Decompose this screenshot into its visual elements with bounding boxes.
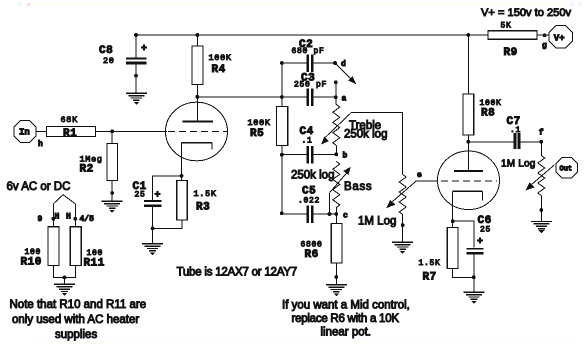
svg-text:R8: R8 xyxy=(481,108,495,120)
node H label right xyxy=(66,213,71,222)
ground heater xyxy=(54,284,75,296)
node junction R8/C7/plate xyxy=(466,140,470,144)
wire volume pot bottom lead xyxy=(402,215,404,242)
node junction treble top xyxy=(334,80,338,84)
node junction top rail at R8/R9 xyxy=(466,33,470,37)
wire C2 left lead xyxy=(282,62,307,64)
svg-text:R1: R1 xyxy=(63,128,77,140)
wire heater left lead xyxy=(52,204,54,227)
text tube type note xyxy=(177,267,297,279)
wire C1 bottom lead xyxy=(152,207,154,243)
tube triode U1a xyxy=(166,97,229,161)
svg-text:.1: .1 xyxy=(510,126,521,135)
svg-text:supplies: supplies xyxy=(55,329,97,341)
node junction C1-ground xyxy=(151,227,155,231)
svg-text:5K: 5K xyxy=(501,22,512,31)
svg-text:linear pot.: linear pot. xyxy=(321,327,372,339)
svg-text:100K: 100K xyxy=(209,53,232,63)
capacitor C8 xyxy=(99,44,147,66)
svg-text:H: H xyxy=(66,213,71,222)
svg-text:d: d xyxy=(341,60,346,69)
node a xyxy=(334,95,347,104)
wire heater right lead xyxy=(74,204,76,227)
node d xyxy=(333,60,346,69)
svg-text:25: 25 xyxy=(480,226,491,235)
wire C3 left lead xyxy=(282,96,307,98)
node b xyxy=(334,152,347,161)
node f xyxy=(539,129,544,144)
wire top supply rail xyxy=(136,34,488,36)
svg-text:1.5K: 1.5K xyxy=(194,189,217,199)
svg-text:1M Log: 1M Log xyxy=(501,159,536,170)
node junction cathode/R7/C6 xyxy=(451,219,455,223)
svg-text:g: g xyxy=(542,42,547,51)
capacitor C5 xyxy=(298,186,320,224)
wire R4 bottom to plate of U1a xyxy=(196,85,198,122)
svg-text:1.5K: 1.5K xyxy=(419,259,441,268)
ground below C1 xyxy=(142,244,163,256)
svg-text:R4: R4 xyxy=(212,64,226,76)
ground below R6 xyxy=(326,285,347,297)
wire node c to R6 xyxy=(335,214,337,224)
terminal V+ xyxy=(549,26,572,49)
svg-text:25: 25 xyxy=(135,191,146,200)
wire bass bottom to node c xyxy=(335,208,337,215)
svg-text:R7: R7 xyxy=(423,272,437,284)
capacitor C3 xyxy=(294,73,327,106)
wire C5 left lead xyxy=(282,212,307,215)
svg-text:.1: .1 xyxy=(302,137,313,146)
node pins 4/5 label xyxy=(80,215,95,224)
node junction volume-ground xyxy=(401,223,405,227)
svg-text:f: f xyxy=(539,129,544,138)
wire plate node to C7 xyxy=(468,141,513,143)
resistor R2 xyxy=(80,143,118,180)
wire R2 top lead xyxy=(111,131,113,143)
svg-text:6v AC or DC: 6v AC or DC xyxy=(7,181,71,193)
wire cathode U1a down to R3/C1 xyxy=(181,143,183,181)
svg-text:+: + xyxy=(141,44,147,55)
svg-text:100K: 100K xyxy=(248,118,271,128)
node junction R1/R2/grid xyxy=(110,130,114,134)
wire C4 right lead to node b xyxy=(314,154,337,156)
text 6v AC or DC xyxy=(7,181,71,193)
wire C8 bottom lead xyxy=(135,64,137,92)
wire cathode junction to C1 xyxy=(153,176,182,200)
wire treble top to node a xyxy=(335,82,337,104)
resistor R8 xyxy=(463,94,502,135)
wire R7 bottom to C6 bottom junction xyxy=(453,269,474,278)
svg-text:Tube is 12AX7 or 12AY7: Tube is 12AX7 or 12AY7 xyxy=(177,267,297,279)
text mid control note line1 xyxy=(282,300,410,312)
node junction rail/C2 xyxy=(280,61,284,65)
svg-text:If you want a Mid control,: If you want a Mid control, xyxy=(282,300,410,312)
svg-text:V+: V+ xyxy=(554,33,565,43)
terminal In xyxy=(14,121,36,143)
svg-text:250k log: 250k log xyxy=(291,170,334,182)
wire C2 right lead to node d xyxy=(314,62,335,64)
wire R6 bottom lead xyxy=(335,263,337,284)
wire to heater ground xyxy=(64,277,66,283)
node c xyxy=(334,212,348,221)
svg-text:R9: R9 xyxy=(504,47,518,59)
resistor R4 xyxy=(192,46,232,85)
wire treble bottom to node b xyxy=(335,146,337,155)
node junction top rail at C8 xyxy=(134,33,138,37)
svg-text:1M Log: 1M Log xyxy=(358,216,396,228)
text heater note line2 xyxy=(12,314,139,326)
wire C5 right lead to node c xyxy=(314,213,337,215)
svg-text:Bass: Bass xyxy=(344,181,372,193)
svg-text:Note that R10 and R11 are: Note that R10 and R11 are xyxy=(10,299,147,311)
wire C4 left lead xyxy=(282,154,307,156)
wire cathode junction to C6 top xyxy=(453,221,474,248)
capacitor C1 xyxy=(133,181,162,207)
node junction rail/C4 xyxy=(280,153,284,157)
node junction heater left H xyxy=(52,217,56,221)
wire node f down to out pot xyxy=(540,142,542,156)
resistor R9 xyxy=(488,22,537,60)
svg-text:+: + xyxy=(155,191,161,202)
wire R8 top lead from rail xyxy=(467,35,469,94)
wire In to R1 xyxy=(36,130,47,132)
svg-text:68K: 68K xyxy=(61,115,79,125)
capacitor C7 xyxy=(507,116,522,149)
svg-text:9: 9 xyxy=(38,215,43,224)
svg-text:4/5: 4/5 xyxy=(80,215,95,224)
node junction heater right H xyxy=(73,217,77,221)
node junction plate node xyxy=(196,95,200,99)
wire bass wiper diagonal xyxy=(330,167,351,193)
resistor R5 xyxy=(248,107,288,146)
svg-text:V+ = 150v to 250v: V+ = 150v to 250v xyxy=(481,7,572,19)
node h label xyxy=(38,140,43,149)
svg-text:e: e xyxy=(417,171,422,180)
svg-text:250k log: 250k log xyxy=(344,129,387,141)
svg-text:c: c xyxy=(343,212,348,221)
resistor R1 xyxy=(47,115,96,140)
text mid control note line2 xyxy=(292,313,400,325)
node junction output pot ground xyxy=(539,208,543,212)
tube triode U1b xyxy=(438,151,500,210)
terminal Out xyxy=(556,157,577,178)
potentiometer Bass 250k xyxy=(291,162,372,208)
ground below output pot xyxy=(531,222,552,234)
wire R4 top lead xyxy=(196,35,198,46)
node e label xyxy=(417,171,422,180)
svg-text:R2: R2 xyxy=(80,164,94,176)
capacitor C2 xyxy=(292,39,325,72)
node junction C8-ground xyxy=(134,74,138,78)
ground below C8 xyxy=(126,93,147,105)
svg-text:Out: Out xyxy=(560,166,573,174)
wire R1 to grid of U1a xyxy=(96,130,168,132)
potentiometer volume 1M Log xyxy=(358,175,406,228)
wire volume wiper diagonal to grid U1b xyxy=(386,181,437,208)
resistor R10 xyxy=(21,227,60,269)
node junction cathode/C1/R3 xyxy=(180,174,184,178)
ground below R7/C6 xyxy=(463,292,484,304)
svg-text:replace R6 with a 10K: replace R6 with a 10K xyxy=(292,313,400,325)
node junction R6-ground xyxy=(334,275,338,279)
wire C8 top lead xyxy=(135,35,137,58)
svg-text:.022: .022 xyxy=(298,197,320,206)
node junction g xyxy=(542,33,547,50)
svg-text:b: b xyxy=(343,152,348,161)
wire treble wiper to volume pot top xyxy=(352,112,403,174)
wire C7 right lead to node f xyxy=(520,141,541,143)
wire output pot wiper to Out terminal xyxy=(526,165,555,191)
wire R9 right to V+ terminal xyxy=(537,34,550,36)
wire tone stack left rail xyxy=(281,63,283,107)
node junction C6/R7 ground xyxy=(472,275,476,279)
node H label left xyxy=(55,213,60,222)
svg-text:a: a xyxy=(342,95,347,104)
wire cathode U1b down xyxy=(452,191,454,227)
potentiometer Treble 250k xyxy=(333,105,388,146)
text mid control note line3 xyxy=(321,327,372,339)
resistor R11 xyxy=(70,227,105,270)
wire bass wiper down to C5 row xyxy=(329,193,331,214)
wire R3 bottom to C1 junction xyxy=(153,220,182,229)
svg-text:R10: R10 xyxy=(21,257,42,269)
wire R2 bottom lead xyxy=(111,180,113,200)
node junction R2-ground xyxy=(110,191,114,195)
text heater note line1 xyxy=(10,299,147,311)
svg-text:only used with AC heater: only used with AC heater xyxy=(12,314,139,326)
svg-text:H: H xyxy=(55,213,60,222)
node junction top rail at R4 xyxy=(196,33,200,37)
svg-text:R11: R11 xyxy=(84,258,105,270)
resistor R3 xyxy=(177,181,217,220)
wire rail R5 bottom to C5 row xyxy=(281,146,283,215)
svg-text:h: h xyxy=(38,140,43,149)
text V+ note xyxy=(481,7,572,19)
wire R8 bottom to plate node U1b xyxy=(467,135,469,171)
capacitor C6 xyxy=(466,215,491,255)
node junction rail/C3/plate wire xyxy=(280,95,284,99)
ground below volume pot xyxy=(392,242,413,254)
svg-text:680 pF: 680 pF xyxy=(292,47,325,56)
wire output pot bottom lead xyxy=(540,196,542,221)
svg-text:R3: R3 xyxy=(196,202,210,214)
svg-text:250 pF: 250 pF xyxy=(294,81,327,90)
wire R10/R11 bottoms joined xyxy=(53,265,75,277)
text heater note line3 xyxy=(55,329,97,341)
svg-text:R5: R5 xyxy=(250,128,264,140)
node junction bass wiper/C5 wire xyxy=(328,212,332,216)
node junction rail/C5 xyxy=(280,211,284,215)
wire C6 bottom lead xyxy=(473,255,475,292)
resistor R6 xyxy=(301,224,343,264)
node junction heater ground xyxy=(63,276,67,280)
wire C3 right lead to node a xyxy=(314,96,336,98)
node pin 9 label xyxy=(38,215,43,224)
potentiometer output 1M Log xyxy=(501,156,545,196)
svg-text:In: In xyxy=(19,128,30,138)
wire plate node to tone stack xyxy=(197,96,306,98)
ground below R2 xyxy=(102,201,123,213)
svg-text:20: 20 xyxy=(103,56,115,66)
wire treble wiper diagonal xyxy=(321,112,351,144)
svg-text:+: + xyxy=(477,237,483,248)
resistor R7 xyxy=(419,228,459,284)
capacitor C4 xyxy=(300,126,314,164)
svg-text:R6: R6 xyxy=(305,249,319,261)
wire heater supply tent xyxy=(53,195,75,204)
wire wiper arrow from node d xyxy=(337,65,357,85)
